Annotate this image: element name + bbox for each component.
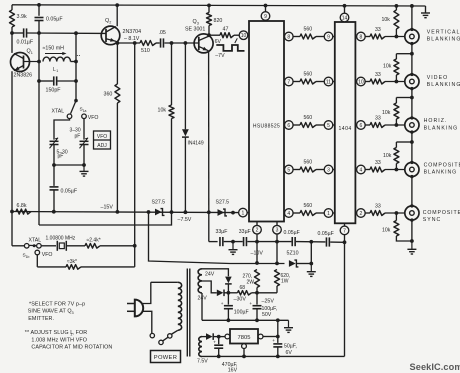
resistor 560 row4 xyxy=(300,167,316,172)
capacitor 470uF 16V xyxy=(218,337,220,345)
resistor 33 row5 xyxy=(370,211,385,216)
svg-text:14: 14 xyxy=(342,15,348,21)
pin 10 1404 right row2 xyxy=(355,81,356,83)
svg-text:≈2.4k*: ≈2.4k* xyxy=(87,237,101,243)
node Q3 collector xyxy=(207,33,211,37)
svg-text:HSU88525: HSU88525 xyxy=(253,124,280,130)
wire top to 0.05uF cap xyxy=(38,5,40,16)
svg-text:5: 5 xyxy=(327,123,330,129)
svg-text:10: 10 xyxy=(358,79,364,85)
node zener row x257 xyxy=(255,261,259,265)
wire ground bus 320 xyxy=(202,319,289,321)
svg-text:≈3k*: ≈3k* xyxy=(67,259,77,265)
svg-text:10k: 10k xyxy=(383,64,392,70)
node x134.7 y43 xyxy=(133,41,137,45)
node 7805 output xyxy=(276,335,280,339)
resistor 10k row3 xyxy=(396,97,412,99)
svg-text:68: 68 xyxy=(240,285,246,291)
svg-text:BLANKING: BLANKING xyxy=(427,37,460,43)
svg-text:–7.5V: –7.5V xyxy=(178,217,192,223)
resistor 620 1W xyxy=(275,270,280,287)
connector J3 horiz blanking xyxy=(405,118,419,132)
svg-text:47: 47 xyxy=(223,26,229,32)
transformer T1 core xyxy=(186,269,188,357)
switch power contact c xyxy=(150,333,154,337)
pin 5 1404 left row3 xyxy=(324,121,333,130)
svg-text:+: + xyxy=(221,301,224,306)
wire L1 to x76 xyxy=(71,61,77,63)
svg-text:16V: 16V xyxy=(228,368,238,373)
svg-text:3.9k: 3.9k xyxy=(17,14,27,20)
wire Q3 emitter to bus xyxy=(208,51,210,213)
svg-text:3: 3 xyxy=(72,311,74,315)
inductor L1 xyxy=(43,57,71,61)
switch S1a pole xyxy=(74,99,78,103)
resistor 560 row2 xyxy=(300,79,316,84)
wire caps row d xyxy=(296,241,325,243)
svg-text:8: 8 xyxy=(287,34,290,40)
wire row4 left xyxy=(293,169,300,171)
svg-text:ADJ: ADJ xyxy=(97,143,107,149)
pin 4 1404 right row4 xyxy=(355,169,356,171)
switch S1a XTAL contact xyxy=(67,114,72,119)
transistor Q1 2N3826 xyxy=(11,53,30,72)
node x39 y33 xyxy=(37,31,41,35)
svg-text:+: + xyxy=(272,338,275,343)
wire 7805 output xyxy=(263,336,278,338)
wire 510 to cap xyxy=(156,42,160,44)
capacitor 0.05uF top xyxy=(35,17,44,19)
capacitor 100uF -30V xyxy=(227,293,229,305)
node x76 y61 xyxy=(74,60,78,64)
IC U2 1404 xyxy=(335,22,356,223)
switch S1a lever xyxy=(71,101,76,114)
svg-text:11: 11 xyxy=(326,79,331,85)
wire caps row a xyxy=(209,241,218,243)
wire caps row c xyxy=(247,241,291,243)
diode rectifier 7.5V xyxy=(206,333,213,340)
svg-text:POWER: POWER xyxy=(154,355,177,361)
svg-text:820: 820 xyxy=(214,18,223,24)
resistor 33 row3 xyxy=(370,123,385,128)
ground sync output xyxy=(411,241,413,249)
wire row5 right xyxy=(365,212,370,214)
svg-text:33: 33 xyxy=(375,160,381,166)
transformer T1 secondary 7.5V xyxy=(199,337,202,357)
svg-text:1a: 1a xyxy=(83,109,87,113)
svg-text:2: 2 xyxy=(360,211,363,217)
wire plug to primary top xyxy=(143,282,151,303)
svg-text:33: 33 xyxy=(375,72,381,78)
svg-text:1: 1 xyxy=(56,69,58,73)
connector J5 composite sync xyxy=(405,206,419,220)
node sync ground junction xyxy=(410,239,414,243)
wire trimmer1 to bus xyxy=(53,145,55,166)
wire caps row e xyxy=(330,241,344,243)
svg-text:5: 5 xyxy=(287,167,290,173)
pin 5 HSU right row4 xyxy=(283,169,286,171)
wire 24V winding bottom xyxy=(201,293,203,320)
svg-text:1: 1 xyxy=(327,211,330,217)
connector J2 video blanking xyxy=(405,74,419,88)
svg-text:7.5V: 7.5V xyxy=(197,359,208,365)
resistor 33 row4 xyxy=(370,167,385,172)
wire x76 vertical xyxy=(75,33,77,100)
svg-text:10k: 10k xyxy=(158,108,167,114)
svg-text:1.008 MHz WITH VFO: 1.008 MHz WITH VFO xyxy=(31,337,87,343)
svg-text:10k: 10k xyxy=(382,110,391,116)
node osc feed junction xyxy=(133,244,137,248)
wire row3 right xyxy=(365,124,370,126)
svg-text:2: 2 xyxy=(109,21,111,25)
wire output to bus320 xyxy=(277,320,279,336)
node trimmer bus left xyxy=(52,163,56,167)
svg-text:BLANKING: BLANKING xyxy=(424,170,457,176)
resistor 10k row5 xyxy=(395,213,397,221)
svg-text:100µF: 100µF xyxy=(234,309,249,315)
box VFO ADJ label xyxy=(94,131,111,149)
svg-text:2N3704: 2N3704 xyxy=(123,29,142,35)
wire Q2 collector to rail xyxy=(116,5,118,26)
svg-text:XTAL: XTAL xyxy=(52,109,65,115)
svg-text:–25V: –25V xyxy=(262,299,275,305)
svg-text:560: 560 xyxy=(304,115,313,121)
resistor 33 row1 xyxy=(370,34,385,39)
pin 8 HSU right row1 xyxy=(283,36,286,38)
capacitor 0.05uF d xyxy=(325,237,327,246)
capacitor 33uF a xyxy=(219,237,221,246)
capacitor 0.01uF xyxy=(23,28,25,37)
svg-text:EMITTER.: EMITTER. xyxy=(28,316,54,322)
node bus x171.5 xyxy=(170,210,174,214)
svg-text:2W: 2W xyxy=(247,280,255,286)
crystal Y1 1.00800 MHz xyxy=(56,241,58,251)
node junction j34 xyxy=(410,140,414,144)
resistor 10k row2 xyxy=(396,53,412,55)
svg-text:BLANKING: BLANKING xyxy=(424,125,459,131)
svg-text:SE 3001: SE 3001 xyxy=(185,27,205,33)
svg-text:0.05µF: 0.05µF xyxy=(46,17,63,23)
svg-text:VFO: VFO xyxy=(97,134,107,140)
svg-text:pF: pF xyxy=(58,154,64,160)
svg-text:8: 8 xyxy=(360,34,363,40)
svg-text:3: 3 xyxy=(327,167,330,173)
wire 7805 bottom pin xyxy=(243,349,245,357)
svg-text:BLANKING: BLANKING xyxy=(427,82,460,88)
svg-text:7: 7 xyxy=(343,228,346,234)
svg-text:33: 33 xyxy=(375,204,381,210)
svg-text:1404: 1404 xyxy=(339,126,352,132)
wire oscillator feed x134.7 xyxy=(134,43,136,246)
wire VFO branch to trimmer xyxy=(83,119,85,140)
node bus bottom x218 xyxy=(217,355,221,359)
connector J4 composite blanking xyxy=(405,162,419,176)
resistor 10k row4 xyxy=(396,141,412,143)
svg-text:VFO: VFO xyxy=(88,115,99,121)
wire 3.9k to node xyxy=(11,27,13,33)
ground VFO trimmer xyxy=(83,165,85,171)
wire base row Q2 xyxy=(27,32,106,34)
node bus x148.5 xyxy=(147,210,151,214)
wire row1 right xyxy=(365,36,370,38)
wire cap to -15V bus xyxy=(53,190,55,212)
resistor 10k row1 xyxy=(395,6,397,10)
svg-text:24V: 24V xyxy=(205,272,215,278)
wire row1 mid xyxy=(316,36,324,38)
node 470uF junction xyxy=(217,335,221,339)
capacitor 0.05uF osc xyxy=(50,186,59,188)
svg-text:1W: 1W xyxy=(281,279,289,285)
wire VFO contact down xyxy=(36,255,38,267)
wire primary bottom xyxy=(172,330,178,334)
capacitor 150pF xyxy=(53,76,55,85)
pin 1 HSU88525 xyxy=(239,208,248,217)
node bus x233 xyxy=(231,211,235,215)
node bus320 x257 xyxy=(255,318,259,322)
resistor 820 xyxy=(208,5,210,12)
svg-text:6V: 6V xyxy=(215,39,222,45)
node Q2 emitter xyxy=(116,41,120,45)
svg-text:S27.5: S27.5 xyxy=(216,200,230,206)
svg-text:COMPOSITE: COMPOSITE xyxy=(423,210,460,216)
diode rectifier mid xyxy=(217,290,224,297)
node top rail junctions xyxy=(37,3,41,7)
wire Q1 emitter to bus xyxy=(11,71,13,211)
node caps row x311 xyxy=(309,240,313,244)
switch S1b lever xyxy=(29,244,36,246)
svg-text:7: 7 xyxy=(287,79,290,85)
wire Q3 collector xyxy=(208,34,210,37)
node x311 zener row xyxy=(309,262,313,266)
svg-text:** ADJUST SLUG L: ** ADJUST SLUG L xyxy=(25,330,74,336)
wire Q1 collector xyxy=(11,33,13,53)
wire XTAL to crystal xyxy=(41,245,56,247)
wire bus to 0.05uF xyxy=(53,165,55,186)
pin 14 top 1404 xyxy=(344,6,346,13)
svg-text:50µF,: 50µF, xyxy=(284,344,297,350)
wire row5 left xyxy=(293,212,300,214)
wire vert conn top row1 xyxy=(411,6,413,29)
svg-text:4: 4 xyxy=(287,211,290,217)
wire row2 right xyxy=(365,81,370,83)
svg-text:≈150 mH: ≈150 mH xyxy=(43,46,65,52)
svg-text:pF: pF xyxy=(75,134,81,140)
wire plug to switch xyxy=(143,311,152,333)
node bus bottom x244 xyxy=(242,355,246,359)
svg-text:CAPACITOR AT MID ROTATION: CAPACITOR AT MID ROTATION xyxy=(31,345,112,351)
svg-text:6.8k: 6.8k xyxy=(17,203,27,209)
svg-text:VERTICAL: VERTICAL xyxy=(427,30,460,36)
diode D1 1N4149 xyxy=(184,43,186,129)
pin 2 HSU bottom xyxy=(256,222,258,226)
svg-text:5Z10: 5Z10 xyxy=(287,251,299,257)
svg-text:XTAL: XTAL xyxy=(29,237,42,243)
svg-text:33: 33 xyxy=(375,116,381,122)
svg-text:3: 3 xyxy=(197,22,199,26)
node bus320 x228 xyxy=(227,318,231,322)
resistor 47 xyxy=(209,34,220,36)
node bus x53.8 xyxy=(52,210,56,214)
wire row2 to connector xyxy=(385,81,410,83)
node bus x209 xyxy=(207,210,211,214)
node -25V xyxy=(255,291,259,295)
node 10k junction row1 xyxy=(395,35,399,39)
svg-text:10k: 10k xyxy=(382,17,391,23)
resistor 510 xyxy=(140,41,156,46)
svg-text:3: 3 xyxy=(276,228,279,234)
node 10k junction row2 xyxy=(395,80,399,84)
svg-text:560: 560 xyxy=(304,26,313,32)
regulator 7805 xyxy=(230,329,258,344)
resistor 560 row5 xyxy=(300,211,316,216)
pin 7 HSU right row2 xyxy=(283,81,286,83)
wire bottom bus xyxy=(202,355,345,357)
wire branch x148.5 to zener row xyxy=(149,212,285,264)
svg-text:*SELECT FOR 7V p–p: *SELECT FOR 7V p–p xyxy=(29,301,85,307)
svg-text:4: 4 xyxy=(360,167,363,173)
node x76 y81 xyxy=(74,79,78,83)
node pin3 caps row xyxy=(275,240,279,244)
svg-text:510: 510 xyxy=(141,48,150,54)
resistor 33 row2 xyxy=(370,79,385,84)
node junction j12 xyxy=(410,52,414,56)
svg-text:.05: .05 xyxy=(159,30,166,36)
svg-text:2: 2 xyxy=(256,228,259,234)
switch power contact b xyxy=(159,340,163,344)
svg-text:360: 360 xyxy=(104,92,113,98)
svg-text:1: 1 xyxy=(31,51,33,55)
node trimmer bus right xyxy=(82,163,86,167)
wire row4 mid xyxy=(316,169,324,171)
svg-text:–30V: –30V xyxy=(234,297,247,303)
wire osc feed to 3k row xyxy=(134,246,136,267)
ground zener row xyxy=(310,264,312,272)
pin 4 HSU right row5 xyxy=(283,212,286,214)
svg-text:–15V: –15V xyxy=(101,205,114,211)
node -30V rect xyxy=(227,291,231,295)
svg-text:33µF: 33µF xyxy=(239,229,251,235)
switch S1a VFO contact xyxy=(82,114,87,119)
svg-text:– 8.1V: – 8.1V xyxy=(124,36,140,42)
wire bus to caps row xyxy=(208,212,210,241)
wire left rail upper xyxy=(11,5,13,10)
resistor 68 xyxy=(228,292,237,294)
resistor 3k xyxy=(66,265,81,270)
svg-text:SINE WAVE AT Q: SINE WAVE AT Q xyxy=(28,309,72,315)
wire x311 vertical xyxy=(310,242,312,264)
svg-text:1: 1 xyxy=(242,211,245,217)
svg-text:+: + xyxy=(249,301,252,306)
diode rectifier top xyxy=(225,277,232,284)
node pin2 caps row xyxy=(255,240,259,244)
pin 1 1404 left row5 xyxy=(324,209,333,218)
pin 6 1404 right row3 xyxy=(355,124,356,126)
capacitor 100uF 50V xyxy=(256,293,258,305)
wire row4 to connector xyxy=(385,169,410,171)
pin 10 HSU88525 xyxy=(239,31,248,40)
resistor 560 row1 xyxy=(300,34,316,39)
svg-text:··: ·· xyxy=(77,54,81,60)
node caps row pin7 xyxy=(343,240,347,244)
wire row5 to connector xyxy=(385,212,410,214)
wire tank rail x39 xyxy=(38,21,40,226)
wire emitter row xyxy=(117,42,140,44)
svg-text:560: 560 xyxy=(304,203,313,209)
wire left rail to S1b xyxy=(11,212,13,246)
node x185.4 y43 xyxy=(184,41,188,45)
pin 3 1404 left row4 xyxy=(324,165,333,174)
svg-text:6: 6 xyxy=(360,123,363,129)
svg-text:VFO: VFO xyxy=(42,252,53,258)
wire XTAL branch to trimmer xyxy=(54,119,70,140)
node bus bottom x278 xyxy=(276,355,280,359)
svg-text:50V: 50V xyxy=(262,312,272,318)
svg-text:+: + xyxy=(213,339,216,344)
node x39 y81 xyxy=(37,79,41,83)
pin 3 HSU bottom xyxy=(276,222,278,226)
wire crystal to 2.4k xyxy=(66,245,85,247)
svg-text:10k: 10k xyxy=(383,153,392,159)
node 10k junction row4 xyxy=(395,168,399,172)
resistor 2.4k xyxy=(85,244,100,249)
svg-text:150pF: 150pF xyxy=(46,88,62,94)
svg-text:1b: 1b xyxy=(26,255,30,259)
node zener row x277 xyxy=(275,262,279,266)
pin 7 1404 bottom xyxy=(344,223,346,226)
resistor 560 row3 xyxy=(300,123,316,128)
node collector Q1 xyxy=(10,31,14,35)
svg-text:VIDEO: VIDEO xyxy=(427,75,448,81)
wire conn4 bottom to conn5 xyxy=(411,177,413,206)
pin 8 1404 right row1 xyxy=(355,36,356,38)
svg-text:9: 9 xyxy=(264,14,267,20)
node caps row ground xyxy=(231,240,235,244)
switch S1b XTAL contact xyxy=(37,244,42,249)
wire Q2 emitter to node xyxy=(116,41,118,43)
wire 24V top tap xyxy=(202,269,228,277)
svg-text:SeekIC.com: SeekIC.com xyxy=(410,362,460,372)
wire conn2 bottom to conn3 xyxy=(411,89,413,118)
wire row3 to connector xyxy=(385,124,410,126)
pin 9 1404 left row1 xyxy=(324,32,333,41)
svg-text:IN4149: IN4149 xyxy=(188,141,204,147)
node bus320 x278 xyxy=(276,318,280,322)
wire row5 mid xyxy=(316,212,324,214)
svg-text:6V: 6V xyxy=(286,350,293,356)
svg-text:10k: 10k xyxy=(382,228,391,234)
wire cap to Q3 base xyxy=(164,42,198,44)
node 10k junction row3 xyxy=(395,123,399,127)
wire trimmer2 to bus xyxy=(83,145,85,166)
wire row1 to connector xyxy=(385,36,410,38)
resistor 6.8k xyxy=(16,209,31,214)
trimmer capacitor 3-30pF xyxy=(80,140,89,142)
capacitor .05 coupling xyxy=(160,38,162,47)
zener D4 5Z10 xyxy=(289,260,296,267)
resistor 10k bias xyxy=(171,43,173,105)
wire row2 mid xyxy=(316,81,324,83)
transistor Q3 SE3001 xyxy=(194,34,213,53)
box POWER label xyxy=(151,351,181,363)
waveform square wave xyxy=(216,45,244,51)
svg-text:33: 33 xyxy=(375,27,381,33)
svg-text:–7V: –7V xyxy=(215,53,225,59)
pin 2 1404 right row5 xyxy=(355,212,356,214)
svg-text:, FOR: , FOR xyxy=(72,330,87,336)
node junction j23 xyxy=(410,96,414,100)
svg-text:560: 560 xyxy=(304,71,313,77)
svg-text:7805: 7805 xyxy=(238,335,251,341)
